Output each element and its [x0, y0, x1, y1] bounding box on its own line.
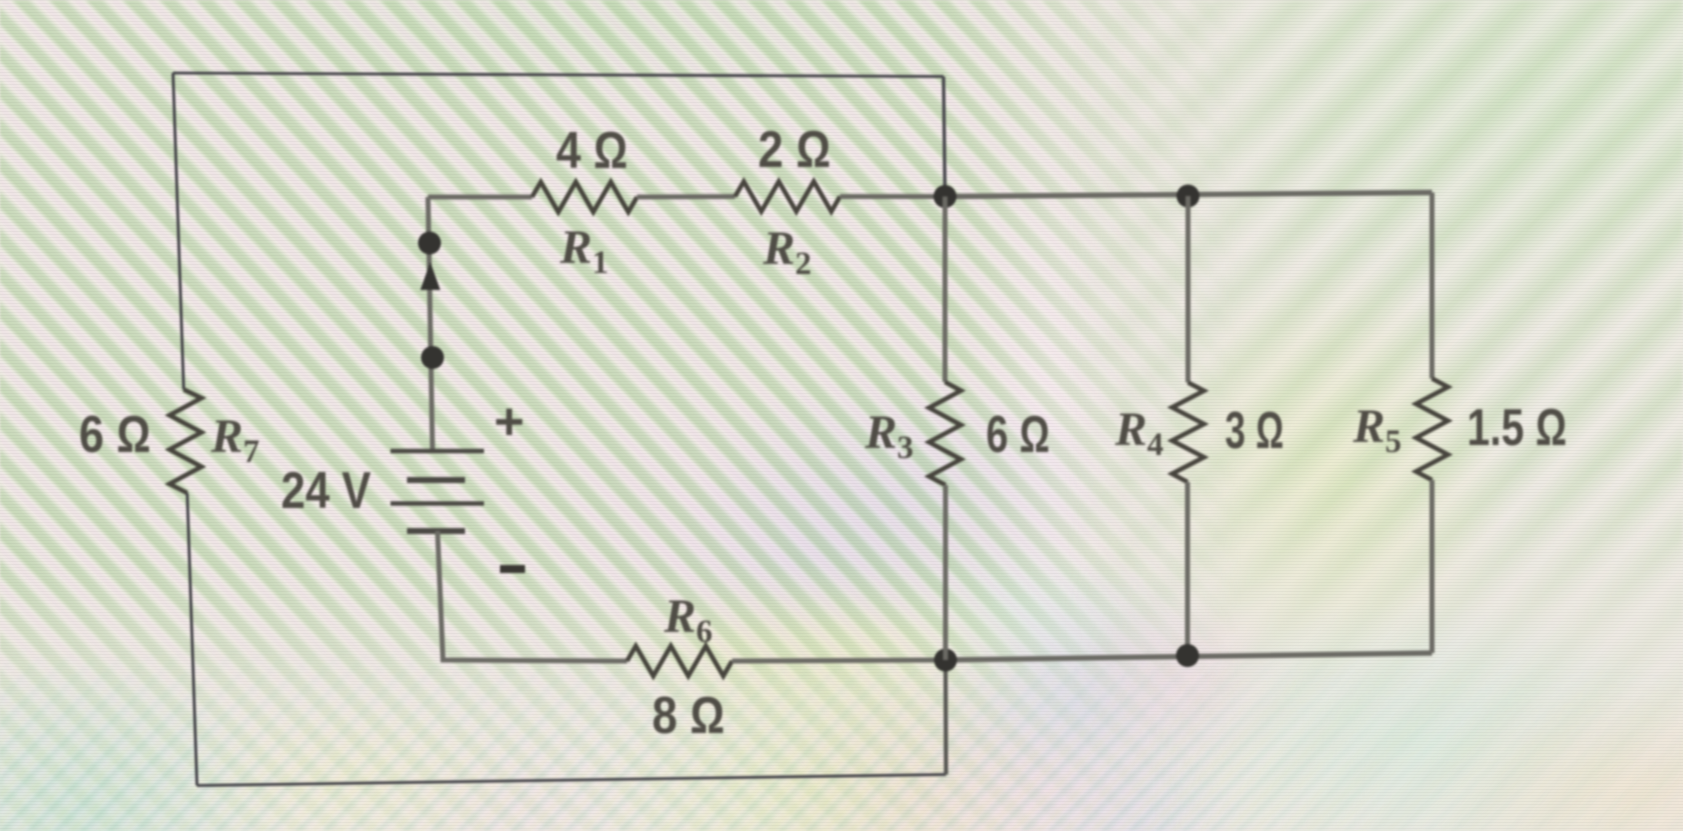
wire right border top segment (corner to node A): [944, 77, 946, 197]
resistor R5 zigzag 1.5 ohm: [1416, 379, 1448, 481]
battery plate long lower: [391, 501, 485, 506]
svg-text:4 Ω: 4 Ω: [556, 122, 628, 180]
wire R4 branch lower: [1185, 482, 1190, 656]
wire R3 branch upper: [943, 197, 948, 383]
svg-text:R4: R4: [1114, 403, 1164, 463]
svg-text:1.5 Ω: 1.5 Ω: [1467, 399, 1567, 457]
node dot upper on battery branch: [418, 232, 441, 255]
node B junction dot: [934, 649, 957, 672]
wire R4 branch upper: [1186, 196, 1191, 383]
svg-text:R2: R2: [762, 222, 812, 282]
node dot lower on battery branch: [421, 346, 444, 369]
svg-text:R3: R3: [864, 406, 914, 466]
wire from R2 to node A: [840, 194, 945, 199]
svg-text:R6: R6: [663, 590, 713, 650]
svg-text:6 Ω: 6 Ω: [986, 406, 1050, 464]
wire battery bottom to corner: [438, 531, 628, 661]
node A junction dot: [934, 185, 957, 208]
minus sign: [500, 565, 525, 573]
wire R5 branch upper: [1430, 193, 1435, 379]
svg-text:3 Ω: 3 Ω: [1225, 402, 1284, 460]
resistor R3 zigzag 6 ohm: [929, 382, 961, 485]
wire right border bottom segment (corner to node B): [943, 660, 948, 775]
wire bottom right bus from node B to R5 branch: [946, 653, 1433, 660]
wire battery branch vertical: [428, 197, 433, 451]
wire R5 branch lower: [1430, 480, 1435, 653]
resistor R7 zigzag 6 ohm: [170, 390, 202, 494]
svg-text:R7: R7: [210, 410, 260, 470]
wire R6 to node B: [732, 660, 946, 661]
svg-text:24 V: 24 V: [281, 462, 371, 520]
svg-text:6 Ω: 6 Ω: [79, 406, 151, 464]
wire top right bus from node A to R5 branch: [945, 193, 1432, 197]
wire left border lower segment: [187, 493, 197, 786]
resistor R6 zigzag 8 ohm: [627, 646, 732, 676]
svg-text:+: +: [494, 393, 524, 451]
resistor R4 zigzag 3 ohm: [1172, 383, 1204, 483]
current direction arrow up: [420, 262, 440, 290]
wire left border upper segment: [173, 73, 184, 390]
wire between R1 and R2: [637, 194, 735, 200]
svg-text:R5: R5: [1352, 400, 1402, 460]
node dot R4 bottom: [1176, 644, 1199, 667]
svg-text:2 Ω: 2 Ω: [758, 121, 831, 179]
wire top border of outer loop: [173, 73, 944, 77]
node dot R4 top: [1177, 185, 1200, 208]
battery plate long top: [391, 449, 485, 454]
svg-text:8 Ω: 8 Ω: [652, 687, 725, 745]
wire R3 branch lower: [943, 485, 948, 660]
battery plate short upper: [407, 477, 465, 483]
wire top branch from battery corner to R1: [428, 195, 532, 200]
resistor R2 zigzag 2 ohm: [735, 182, 840, 212]
resistor R1 zigzag 4 ohm: [532, 182, 637, 212]
battery plate short bottom: [407, 528, 465, 534]
wire bottom border of outer loop: [197, 775, 946, 786]
svg-text:R1: R1: [559, 221, 609, 281]
